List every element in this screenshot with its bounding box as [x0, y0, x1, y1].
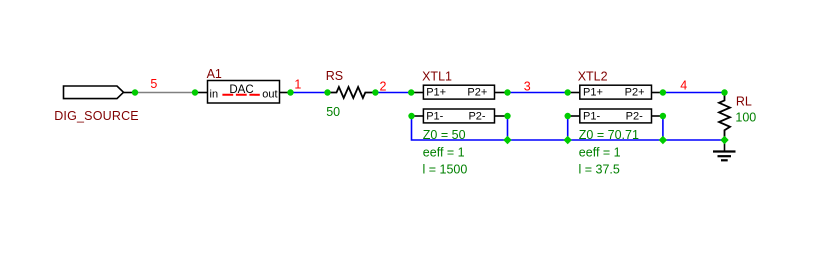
- svg-text:DIG_SOURCE: DIG_SOURCE: [54, 109, 139, 123]
- svg-text:P2-: P2-: [626, 111, 643, 123]
- svg-text:P2+: P2+: [467, 87, 487, 99]
- svg-text:50: 50: [326, 105, 340, 119]
- svg-text:P1+: P1+: [426, 87, 446, 99]
- svg-text:RL: RL: [736, 95, 752, 109]
- svg-text:P2+: P2+: [625, 87, 645, 99]
- svg-text:P2-: P2-: [468, 111, 485, 123]
- svg-text:in: in: [210, 89, 219, 101]
- svg-text:XTL1: XTL1: [422, 69, 452, 83]
- svg-text:3: 3: [524, 80, 531, 94]
- svg-text:eeff = 1: eeff = 1: [579, 145, 621, 159]
- svg-text:l = 37.5: l = 37.5: [579, 163, 620, 177]
- svg-text:5: 5: [150, 77, 157, 91]
- svg-text:P1-: P1-: [426, 111, 443, 123]
- svg-text:P1+: P1+: [583, 87, 603, 99]
- svg-text:A1: A1: [207, 67, 222, 81]
- svg-text:RS: RS: [326, 69, 343, 83]
- svg-text:Z0 = 70.71: Z0 = 70.71: [579, 128, 639, 142]
- svg-text:4: 4: [680, 79, 687, 93]
- svg-text:2: 2: [380, 80, 387, 94]
- svg-text:l = 1500: l = 1500: [423, 163, 468, 177]
- svg-text:P1-: P1-: [583, 111, 600, 123]
- svg-text:XTL2: XTL2: [578, 69, 608, 83]
- svg-text:Z0 = 50: Z0 = 50: [423, 128, 466, 142]
- svg-text:1: 1: [294, 78, 301, 92]
- svg-text:eeff = 1: eeff = 1: [423, 145, 465, 159]
- svg-text:100: 100: [735, 111, 756, 125]
- svg-text:out: out: [262, 89, 277, 101]
